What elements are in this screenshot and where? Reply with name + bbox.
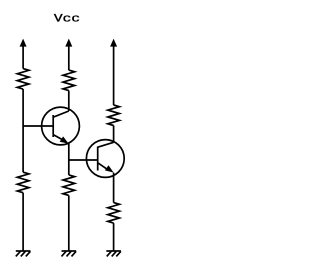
- node B / wire to Q2 base: [69, 159, 98, 161]
- wire node B to R5: [68, 160, 70, 175]
- transistor Q2: [86, 140, 124, 178]
- resistor R2: [63, 70, 75, 91]
- wire R2 to Q1 collector: [68, 91, 70, 111]
- wire Q2 emitter to R6: [113, 173, 115, 203]
- resistor R4: [17, 172, 29, 193]
- Vcc arrow A2 (middle rail): [65, 39, 72, 71]
- ground (left): [16, 251, 31, 256]
- Vcc arrow A3 (right rail): [110, 39, 117, 105]
- wire R4 to ground: [22, 193, 24, 251]
- wire R1 to node A: [22, 89, 24, 126]
- wire R5 to ground: [68, 195, 70, 251]
- resistor R5: [63, 175, 75, 196]
- ground (middle): [62, 251, 77, 256]
- node A / wire to Q1 base: [23, 125, 53, 127]
- svg-text:Vcc: Vcc: [54, 12, 80, 25]
- transistor Q1: [42, 107, 80, 145]
- wire R3 to Q2 collector: [113, 126, 115, 143]
- resistor R6: [108, 203, 120, 224]
- resistor R1: [17, 69, 29, 90]
- Vcc arrow A1 (left rail): [20, 39, 27, 69]
- wire R6 to ground: [113, 223, 115, 251]
- ground (right): [106, 251, 121, 256]
- wire Q1 emitter to node B: [68, 143, 70, 160]
- wire node A to R4: [22, 126, 24, 172]
- resistor R3: [108, 105, 120, 126]
